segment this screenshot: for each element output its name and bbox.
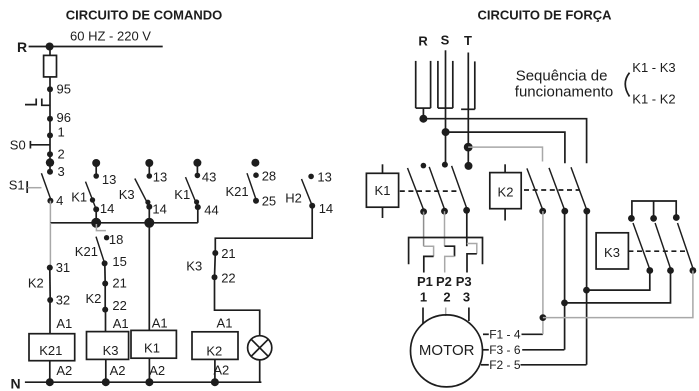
svg-text:A1: A1	[217, 315, 233, 330]
svg-text:1: 1	[58, 125, 65, 140]
svg-text:K1 - K2: K1 - K2	[632, 92, 675, 107]
svg-text:S1: S1	[9, 178, 25, 193]
svg-text:K2: K2	[28, 275, 44, 290]
svg-text:K2: K2	[206, 343, 222, 358]
svg-text:K3: K3	[119, 187, 135, 202]
svg-text:44: 44	[204, 203, 218, 218]
svg-text:13: 13	[102, 172, 116, 187]
svg-text:F1 - 4: F1 - 4	[489, 328, 521, 342]
svg-text:60 HZ - 220 V: 60 HZ - 220 V	[70, 29, 151, 44]
svg-text:K2: K2	[86, 291, 102, 306]
svg-text:A1: A1	[113, 316, 129, 331]
svg-text:K3: K3	[604, 245, 620, 260]
svg-text:43: 43	[202, 170, 216, 185]
svg-text:13: 13	[317, 170, 331, 185]
svg-text:A1: A1	[152, 315, 168, 330]
svg-text:14: 14	[152, 201, 166, 216]
svg-text:H2: H2	[285, 191, 302, 206]
svg-text:32: 32	[56, 292, 70, 307]
svg-text:15: 15	[112, 254, 126, 269]
svg-text:K1: K1	[375, 183, 391, 198]
svg-text:K3: K3	[103, 343, 119, 358]
svg-text:K3: K3	[186, 259, 202, 274]
svg-text:2: 2	[443, 289, 450, 304]
svg-text:2: 2	[58, 147, 65, 162]
svg-text:K1: K1	[144, 341, 160, 356]
svg-text:31: 31	[56, 260, 70, 275]
svg-text:F3 - 6: F3 - 6	[489, 343, 521, 357]
svg-text:K2: K2	[498, 185, 514, 200]
svg-text:CIRCUITO DE COMANDO: CIRCUITO DE COMANDO	[66, 8, 222, 23]
svg-text:R: R	[418, 33, 428, 48]
svg-text:3: 3	[58, 164, 65, 179]
svg-text:funcionamento: funcionamento	[515, 83, 613, 100]
svg-text:R: R	[17, 39, 27, 55]
svg-text:P1: P1	[417, 274, 433, 289]
svg-text:13: 13	[153, 170, 167, 185]
svg-text:A1: A1	[56, 316, 72, 331]
svg-text:F2 - 5: F2 - 5	[489, 358, 521, 372]
svg-text:96: 96	[57, 110, 71, 125]
svg-text:N: N	[11, 376, 21, 391]
svg-text:22: 22	[112, 298, 126, 313]
svg-text:A2: A2	[56, 363, 72, 378]
svg-text:K21: K21	[226, 184, 249, 199]
svg-text:3: 3	[463, 289, 470, 304]
svg-text:CIRCUITO DE FORÇA: CIRCUITO DE FORÇA	[477, 8, 612, 23]
svg-text:95: 95	[57, 82, 71, 97]
svg-text:S: S	[441, 33, 450, 48]
svg-text:K1 - K3: K1 - K3	[632, 60, 675, 75]
svg-text:25: 25	[262, 194, 276, 209]
svg-text:K21: K21	[39, 343, 62, 358]
svg-text:21: 21	[112, 275, 126, 290]
svg-text:21: 21	[221, 246, 235, 261]
svg-text:1: 1	[420, 289, 427, 304]
svg-text:P3: P3	[456, 274, 472, 289]
svg-text:4: 4	[56, 193, 63, 208]
svg-text:S0: S0	[10, 138, 26, 153]
svg-text:A2: A2	[149, 363, 165, 378]
svg-text:22: 22	[221, 270, 235, 285]
svg-text:MOTOR: MOTOR	[419, 342, 475, 359]
svg-text:14: 14	[100, 201, 114, 216]
svg-text:K21: K21	[75, 244, 98, 259]
svg-text:28: 28	[262, 169, 276, 184]
svg-text:14: 14	[319, 201, 333, 216]
svg-text:Sequência de: Sequência de	[516, 68, 608, 85]
svg-text:18: 18	[109, 232, 123, 247]
svg-text:A2: A2	[110, 363, 126, 378]
svg-text:P2: P2	[436, 274, 452, 289]
svg-text:K1: K1	[71, 189, 87, 204]
svg-text:T: T	[464, 33, 472, 48]
svg-text:K1: K1	[174, 187, 190, 202]
